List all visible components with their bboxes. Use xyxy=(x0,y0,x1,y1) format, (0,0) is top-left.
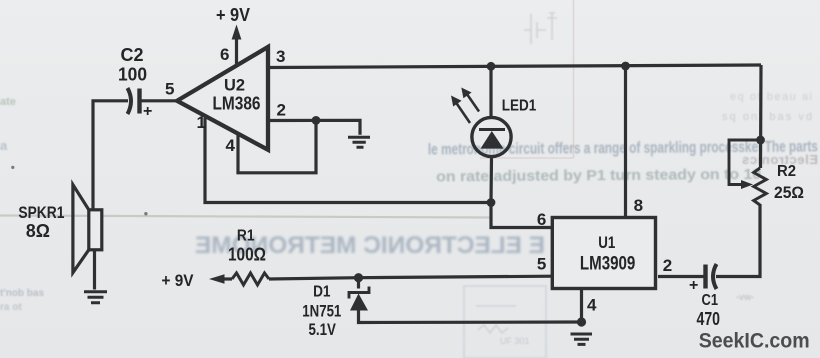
svg-text:SPKR1: SPKR1 xyxy=(18,204,64,222)
svg-text:+ 9V: + 9V xyxy=(216,5,250,25)
svg-text:C1: C1 xyxy=(702,292,719,309)
svg-text:R2: R2 xyxy=(777,163,796,180)
svg-text:U1: U1 xyxy=(598,233,615,252)
svg-text:LED1: LED1 xyxy=(502,98,537,115)
svg-text:3: 3 xyxy=(276,47,285,66)
svg-text:5: 5 xyxy=(537,255,546,274)
svg-text:on rate adjusted by P1 turn st: on rate adjusted by P1 turn steady on to… xyxy=(436,166,761,186)
svg-text:R1: R1 xyxy=(237,228,255,245)
svg-text:4: 4 xyxy=(226,136,236,155)
svg-text:ra ot: ra ot xyxy=(0,302,22,313)
svg-text:6: 6 xyxy=(537,210,546,229)
svg-text:5.1V: 5.1V xyxy=(309,321,336,339)
svg-text:t'nob bas: t'nob bas xyxy=(0,288,44,299)
svg-text:25Ω: 25Ω xyxy=(774,183,804,202)
svg-text:D1: D1 xyxy=(313,284,330,301)
svg-text:ate: ate xyxy=(0,96,16,108)
svg-text:UF 301: UF 301 xyxy=(500,336,530,346)
svg-text:4: 4 xyxy=(587,296,597,315)
svg-text:5: 5 xyxy=(165,80,174,99)
svg-text:100Ω: 100Ω xyxy=(228,245,266,265)
svg-text:LM386: LM386 xyxy=(213,93,261,114)
svg-text:+: + xyxy=(143,103,152,120)
svg-text:470: 470 xyxy=(697,309,721,329)
svg-text:LM3909: LM3909 xyxy=(580,254,635,275)
svg-text:2: 2 xyxy=(277,101,286,120)
svg-text:8Ω: 8Ω xyxy=(26,221,50,241)
svg-text:6: 6 xyxy=(220,45,229,64)
svg-text:100: 100 xyxy=(118,65,147,85)
svg-text:a: a xyxy=(0,138,8,153)
svg-text:sq ont bas vd: sq ont bas vd xyxy=(722,111,812,123)
svg-text:2: 2 xyxy=(663,256,672,275)
svg-text:-vw-: -vw- xyxy=(736,292,754,302)
svg-text:+: + xyxy=(689,277,698,294)
svg-text:1: 1 xyxy=(197,113,206,132)
svg-text:SeekIC.com: SeekIC.com xyxy=(699,329,810,353)
svg-text:C2: C2 xyxy=(121,45,144,65)
svg-text:eq ot beau ai: eq ot beau ai xyxy=(730,91,812,103)
svg-text:8: 8 xyxy=(634,196,643,215)
svg-text:1N751: 1N751 xyxy=(302,303,341,321)
svg-text:+ 9V: + 9V xyxy=(162,272,194,290)
